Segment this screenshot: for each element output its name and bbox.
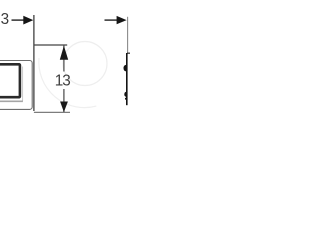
clip 2 side view: [124, 92, 126, 97]
clip 1 side view: [124, 65, 127, 72]
button shadow bottom: [0, 100, 23, 102]
dimension line 13 upper segment: [63, 46, 65, 72]
wall stub line: [127, 52, 130, 54]
clip 2 lower notch: [125, 98, 126, 100]
svg-text:3: 3: [1, 11, 10, 28]
arrowhead right: [117, 16, 127, 24]
plate button inner rectangle: [0, 64, 20, 97]
svg-text:13: 13: [55, 73, 71, 90]
arrowhead left: [23, 16, 33, 25]
dimension line 13 lower segment: [63, 89, 65, 112]
top reference line: [34, 44, 67, 46]
button shadow right: [22, 67, 24, 102]
arrow tail right: [105, 19, 118, 21]
down arrowhead: [60, 102, 68, 113]
side view plate profile: [126, 53, 128, 105]
extension line right: [127, 17, 129, 53]
up arrowhead: [60, 46, 68, 60]
extension line left: [33, 15, 35, 111]
arrow tail left: [12, 19, 25, 21]
plate outer rectangle front view: [0, 61, 32, 110]
watermark inner circle: [63, 42, 107, 86]
watermark outer circle: [39, 58, 96, 108]
bottom reference line: [34, 111, 70, 113]
